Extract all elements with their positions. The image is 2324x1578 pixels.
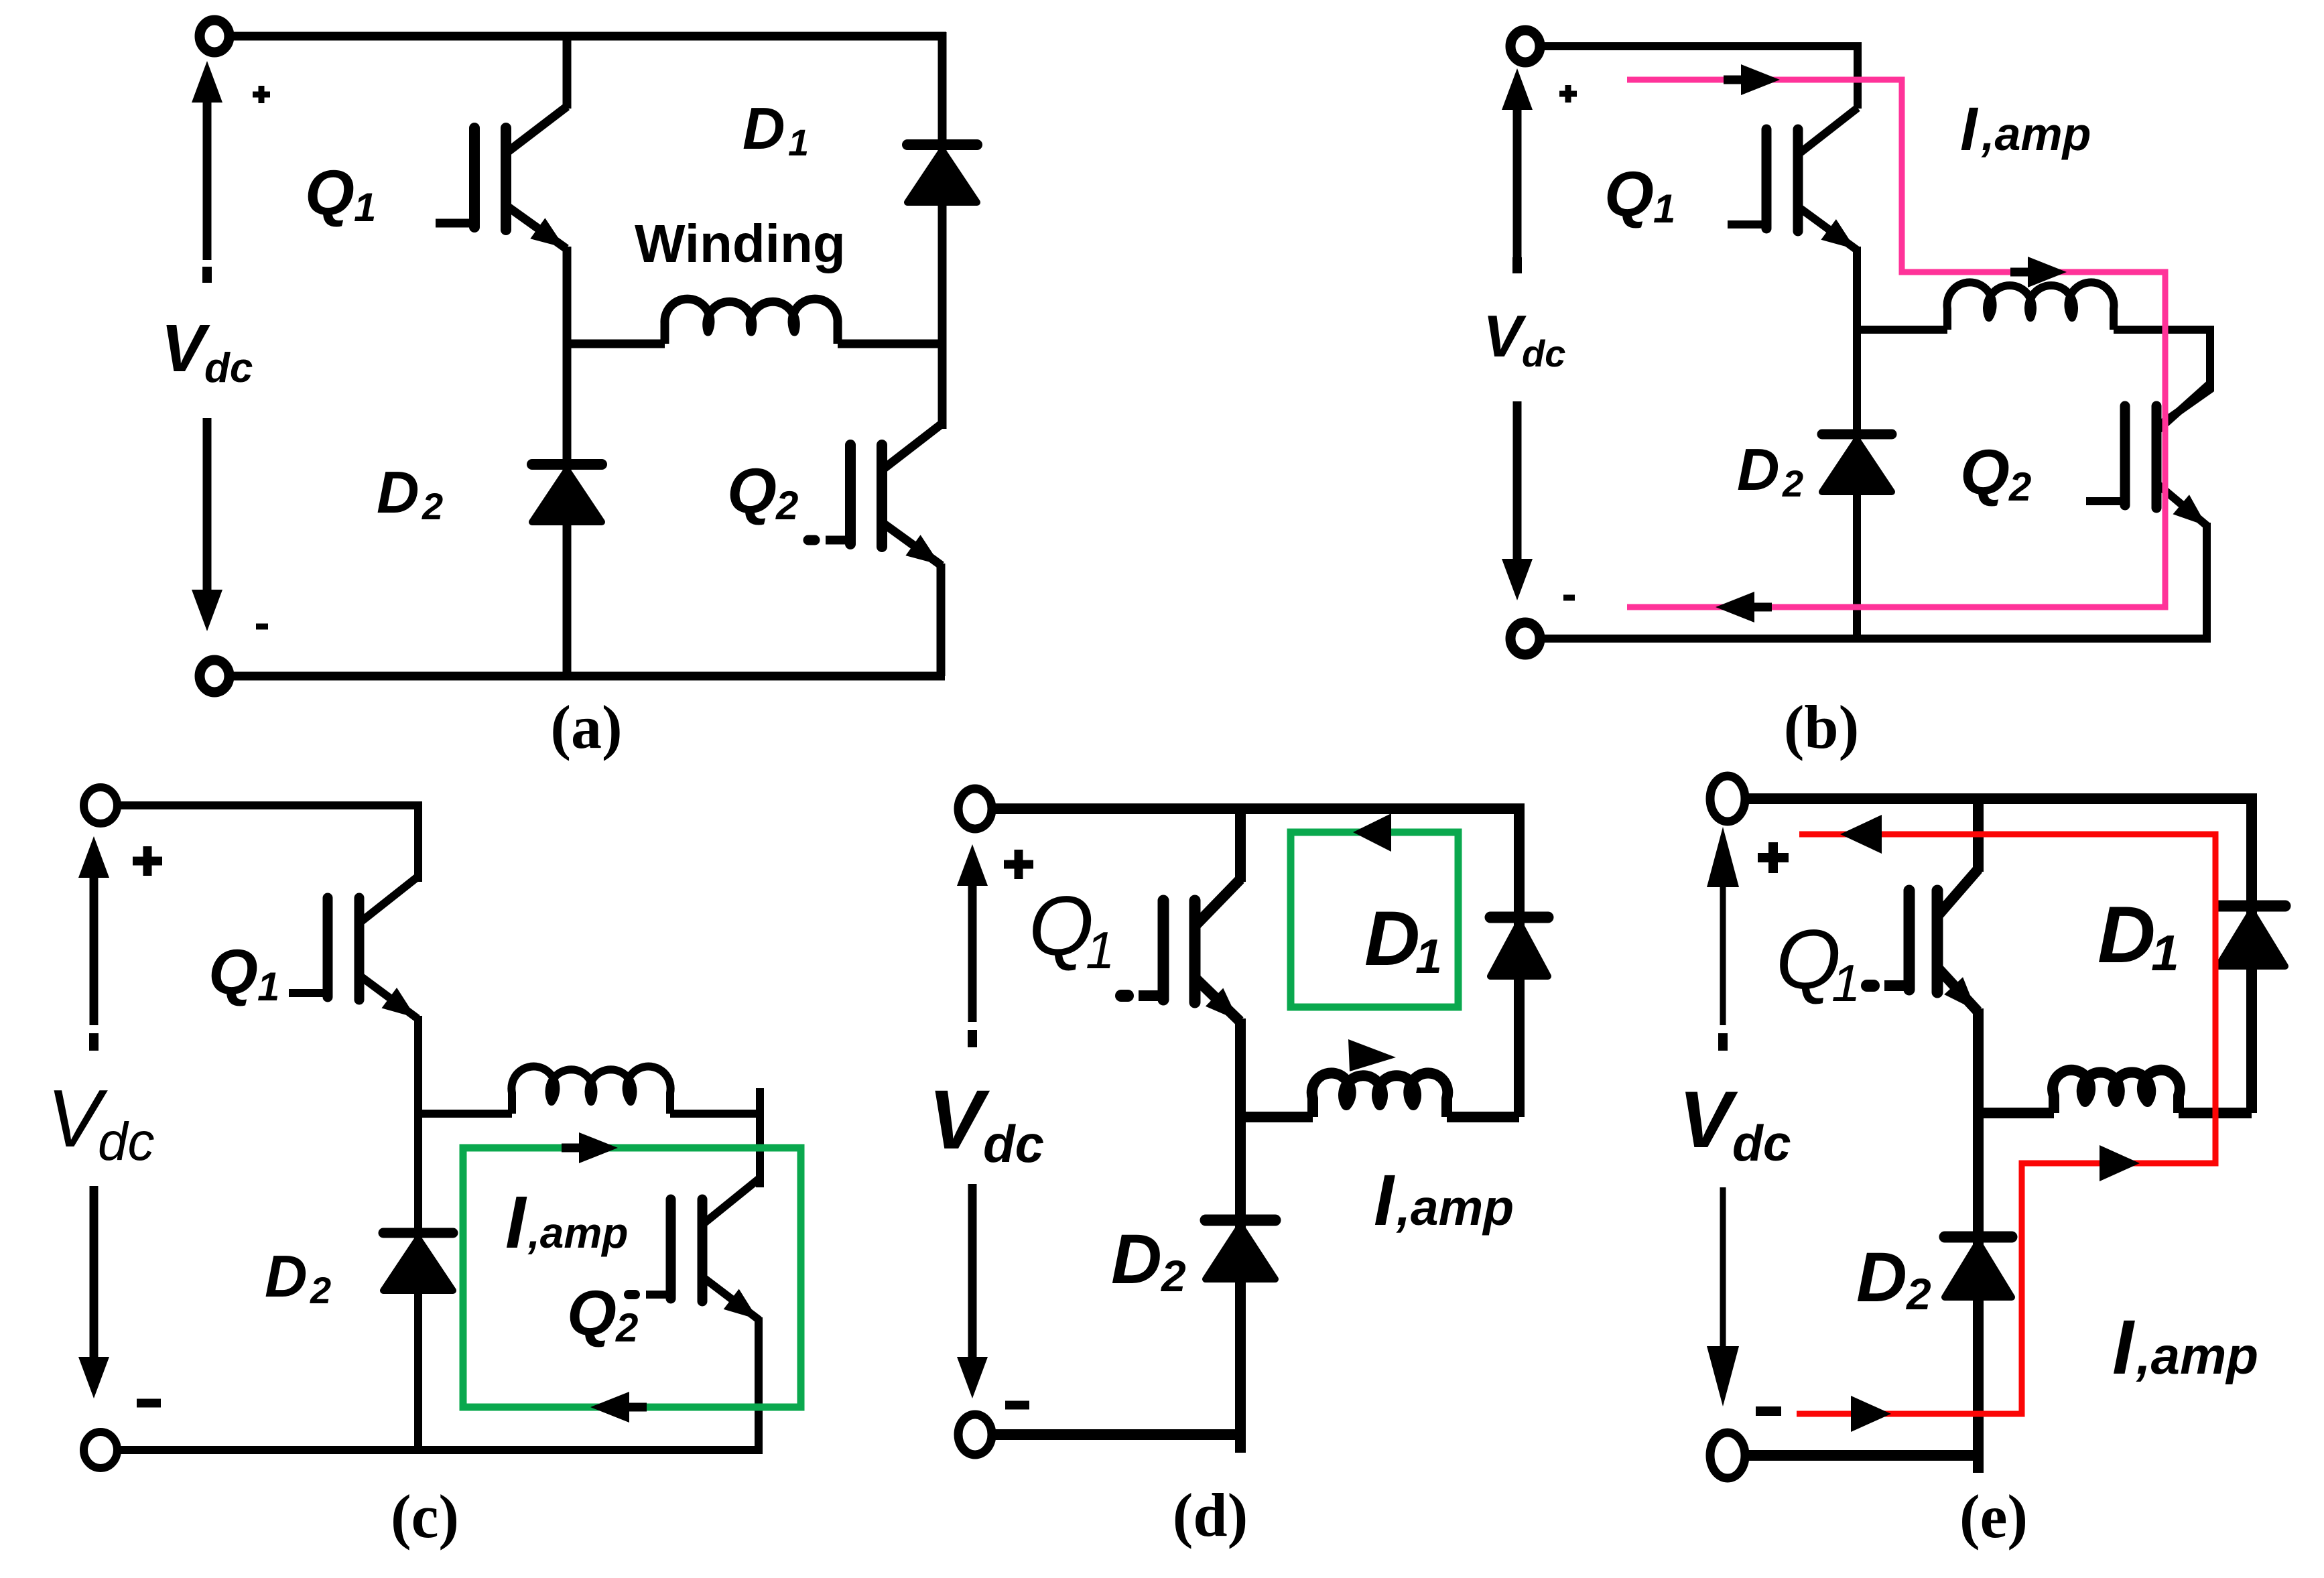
wire (c) bottom rail [115,1446,763,1454]
inductor winding (c) [511,1067,670,1114]
svg-text:dc: dc [204,345,253,391]
svg-text:Q: Q [1029,880,1094,973]
subcircuit (a) asymmetric half-bridge with winding [161,20,977,761]
wire (a) top rail [227,32,946,41]
Vdc down arrow (c) [90,1186,99,1361]
label + (e) [1758,853,1789,862]
svg-text:Q: Q [1960,437,2010,508]
flow arrow (e) top [1840,815,1882,854]
svg-text:V: V [161,311,210,386]
svg-text:(e): (e) [1959,1482,2028,1551]
diode D2 (b) [1822,430,1892,440]
svg-text:Q: Q [567,1278,617,1349]
svg-text:Q: Q [305,157,354,228]
label - (d) [1005,1401,1029,1410]
wire (e) D2 branch stub below rail [1973,1455,1984,1473]
label + (c) [133,857,162,866]
transistor Q1 (b) IGBT [1762,129,1772,228]
flow arrow (b) middle [2028,257,2067,287]
terminal + (e) top-left [1710,776,1745,821]
svg-text:dc: dc [1732,1115,1791,1171]
wire (a) Q1 emitter to bottom rail [563,247,572,676]
node (e) winding left junction [1978,1108,2054,1118]
wire (b) bottom rail [1537,635,2211,643]
svg-text:dc: dc [98,1112,155,1171]
svg-text:2: 2 [2008,464,2031,509]
wire (b) Q1 emitter to bottom rail [1853,247,1861,639]
wire (c) Q2 emitter to bottom rail [755,1317,763,1450]
diode D1 (e) [2218,901,2285,912]
wire (e) Q1 collector drop [1973,794,1984,872]
wire (a) Q1 collector drop [563,32,572,109]
wire (d) Q1 collector drop [1235,804,1246,882]
current path (e) red loop [1797,834,2215,1414]
svg-text:D: D [1856,1238,1907,1317]
flow arrow (b) top [1741,64,1780,95]
svg-text:(d): (d) [1173,1481,1248,1549]
flow arrow (b) bottom [1716,592,1754,622]
node (b) winding left junction [1857,326,1947,334]
svg-text:2: 2 [615,1305,638,1350]
terminal - (b) bottom-left [1510,622,1540,655]
diode D2 (e) [1945,1232,2012,1243]
svg-text:1: 1 [1415,930,1442,984]
flow arrow (d) top [1353,813,1391,852]
terminal - (e) bottom-left [1710,1433,1745,1478]
label - (e) [1756,1406,1781,1416]
svg-text:I: I [505,1181,527,1264]
wire (c) winding right lead [670,1110,760,1118]
wire (e) Q1 emitter to bottom rail [1973,1008,1984,1455]
inductor winding (a) [665,299,838,344]
flow arrow (e) bottom [1851,1396,1891,1432]
node (a) winding left junction [567,340,665,348]
subcircuit (b) excitation mode with current loop [1483,30,2211,761]
svg-text:Q: Q [727,456,777,527]
svg-text:2: 2 [422,485,443,527]
transistor Q1 (a) IGBT [469,128,480,227]
svg-text:,amp: ,amp [2136,1326,2258,1385]
wire (a) Q2 emitter to bottom rail [937,564,946,676]
wire (c) Q1 collector drop [414,802,422,882]
wire (b) Q2 emitter to bottom rail [2203,523,2211,639]
svg-text:1: 1 [354,185,376,230]
svg-text:1: 1 [788,121,809,163]
wire (e) top rail [1744,793,2257,804]
diode D2 (c) [383,1228,453,1238]
diode D2 (d) [1206,1215,1275,1226]
wire (a) winding right lead [838,340,942,348]
svg-text:D: D [265,1243,308,1309]
wire (a) bottom rail [227,672,945,681]
Vdc dash (a) [202,267,212,283]
Vdc up arrow (a) [203,98,212,260]
svg-text:1: 1 [1086,921,1114,980]
wire (d) D1 branch vertical [1514,804,1525,1117]
wire (b) winding right lead [2114,326,2210,334]
svg-text:2: 2 [1905,1269,1931,1319]
node (d) winding left junction [1240,1112,1313,1122]
wire (a) D1 branch vertical [938,32,947,344]
flow arrow (e) middle [2100,1145,2140,1181]
svg-text:2: 2 [1782,462,1803,505]
transistor Q1 (c) IGBT [323,898,333,997]
Vdc up arrow (e) [1720,883,1726,1025]
svg-text:V: V [928,1073,990,1167]
transistor Q2 (c) IGBT [666,1199,676,1299]
Vdc up arrow (c) [90,874,99,1025]
Vdc down arrow (d) [968,1184,977,1361]
Vdc up arrow (b) [1513,106,1522,258]
svg-text:2: 2 [1160,1251,1186,1301]
svg-text:(b): (b) [1784,693,1859,761]
svg-text:V: V [1679,1075,1738,1165]
svg-text:D: D [377,459,419,525]
wire (e) D1 branch vertical [2246,794,2257,1113]
svg-text:D: D [2097,890,2156,980]
transistor Q1 (e) IGBT [1904,891,1915,990]
wire (d) D2 branch stub below rail [1235,1435,1246,1453]
wire (a) Q2 collector drop [938,344,947,429]
wire (b) top rail [1537,42,1862,50]
diode D1 (d) [1490,912,1548,923]
Vdc dash (e) [1718,1033,1728,1051]
svg-text:D: D [1364,896,1420,982]
subcircuit (d) D1 conduction loop [928,789,1548,1549]
terminal - (c) bottom-left [84,1432,117,1468]
svg-text:,amp: ,amp [527,1209,628,1257]
wire (e) bottom rail [1744,1450,1984,1461]
terminal + (b) top-left [1510,30,1540,62]
label + (a) [253,92,270,98]
svg-text:V: V [1483,303,1527,369]
wire (d) top rail [991,803,1525,814]
Vdc down arrow (e) [1720,1187,1726,1350]
label + (b) [1559,91,1577,97]
svg-text:Winding: Winding [635,214,846,273]
terminal - (a) bottom-left [200,660,229,692]
inductor winding (e) [2053,1070,2180,1113]
label - (a) [256,624,268,630]
inductor winding (d) [1312,1073,1448,1117]
wire (e) winding right lead [2179,1108,2252,1118]
wire (c) Q1 emitter to bottom rail [414,1016,422,1450]
flow arrow (c) top [579,1132,618,1163]
label - (b) [1563,595,1575,601]
svg-text:Q: Q [1604,159,1654,230]
diode D1 (a) [907,139,977,150]
subcircuit (c) freewheeling loop through Q2 [47,787,801,1551]
flow arrow (c) bottom [590,1392,629,1423]
svg-text:1: 1 [1831,954,1860,1012]
terminal + (d) top-left [958,789,992,829]
svg-text:,amp: ,amp [1396,1179,1514,1236]
wire (b) Q2 collector elbow [2158,326,2210,426]
label - (c) [137,1399,161,1408]
transistor Q1 (d) IGBT [1158,901,1169,1000]
transistor Q2 (b) IGBT [2120,406,2130,505]
svg-text:,amp: ,amp [1981,108,2091,160]
current loop (d) green rectangle [1291,832,1458,1007]
transistor Q2 (a) IGBT [845,445,856,544]
svg-text:1: 1 [257,964,279,1009]
terminal - (d) bottom-left [958,1415,992,1455]
svg-text:D: D [743,95,785,161]
svg-text:I: I [1960,95,1979,163]
terminal + (c) top-left [84,787,117,824]
current loop (c) green rectangle [463,1148,801,1407]
svg-text:1: 1 [2151,925,2179,981]
svg-text:I: I [2112,1305,2135,1390]
label + (d) [1004,860,1033,869]
diode D2 (a) [532,459,602,470]
terminal + (a) top-left [200,20,229,52]
wire (d) bottom rail [991,1429,1246,1440]
svg-text:(c): (c) [391,1482,459,1551]
subcircuit (e) regeneration loop through D1 D2 [1679,776,2285,1551]
Vdc down arrow (a) [203,418,212,594]
svg-text:2: 2 [310,1269,331,1311]
svg-text:I: I [1374,1159,1395,1240]
svg-text:Q: Q [208,937,258,1008]
flow arrow (d) winding current [1348,1039,1396,1071]
Vdc dash (b) [1512,257,1522,273]
svg-text:dc: dc [983,1114,1044,1173]
svg-text:2: 2 [775,483,798,528]
wire (b) Q1 collector drop [1854,43,1862,109]
Vdc down arrow (b) [1513,401,1522,563]
node (c) winding left junction [418,1110,512,1118]
inductor winding (b) [1947,282,2114,330]
wire (c) top rail [115,801,422,809]
svg-text:D: D [1737,436,1780,503]
Vdc dash (c) [89,1033,99,1051]
Vdc dash (d) [968,1030,977,1047]
svg-text:D: D [1111,1220,1162,1299]
svg-text:(a): (a) [550,693,622,761]
current path (b) pink loop [1627,80,2165,607]
wire (d) Q1 emitter to bottom rail [1235,1018,1246,1435]
Vdc up arrow (d) [968,882,977,1022]
wire (d) winding right lead [1447,1112,1519,1122]
svg-text:dc: dc [1522,332,1565,375]
svg-text:1: 1 [1653,186,1675,231]
wire (c) Q2 collector stub [756,1088,764,1187]
